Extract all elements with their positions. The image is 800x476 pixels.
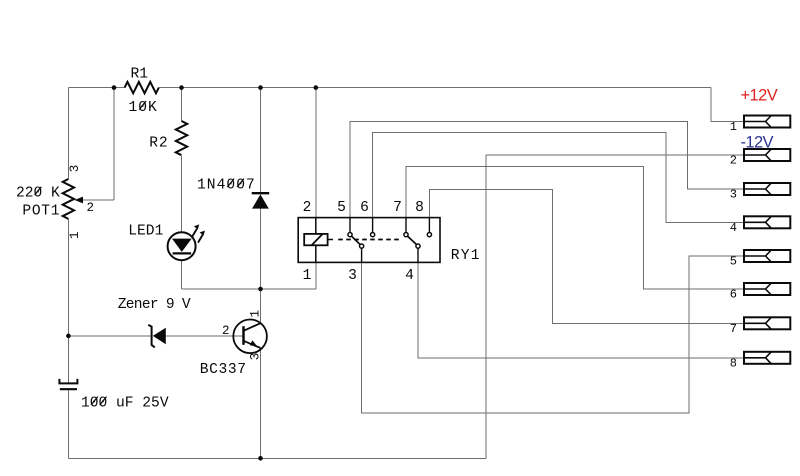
wire relay pin6 to connector 4: [373, 132, 744, 222]
relay pin2 stub: [315, 218, 317, 234]
relay RY1 box: [298, 218, 440, 263]
svg-text:7: 7: [730, 322, 737, 336]
relay contact 8: [427, 233, 431, 237]
resistor R2: [176, 121, 187, 155]
wire R2 to LED1: [181, 156, 183, 232]
diode 1N4007 cathode bar: [252, 192, 270, 194]
wire relay pin5 to connector 3: [350, 122, 744, 218]
svg-text:3: 3: [248, 353, 262, 361]
relay contact 4: [416, 244, 420, 248]
LED1 circle: [168, 232, 196, 260]
relay pin1 stub: [315, 245, 317, 262]
svg-text:8: 8: [415, 200, 424, 216]
junction 1N4007 anode / LED row: [258, 287, 263, 292]
wire 1N4007 top drop: [260, 88, 262, 194]
relay contact 3: [360, 244, 364, 248]
svg-text:POT1: POT1: [22, 204, 60, 220]
transistor Q1 BC337 circle: [233, 320, 267, 354]
connector 4: [744, 216, 790, 228]
relay RY1 coil: [304, 234, 327, 245]
potentiometer POT1 body: [63, 179, 74, 219]
wire relay pin2 drop from top bus: [315, 88, 317, 218]
svg-text:4: 4: [405, 268, 414, 284]
transistor Q1 base bar: [242, 326, 245, 345]
junction top bus / 1N4007: [258, 85, 263, 90]
relay pin8 stub: [428, 218, 430, 233]
wire left rail to capacitor: [67, 336, 69, 383]
LED1 triangle: [172, 239, 192, 252]
svg-text:1: 1: [730, 120, 737, 134]
svg-text:Zener 9 V: Zener 9 V: [118, 297, 191, 313]
wire emitter to bottom rail: [260, 348, 262, 458]
junction zener node: [66, 334, 71, 339]
transistor Q1 emitter arrow: [250, 340, 257, 346]
LED1 cathode bar: [173, 252, 192, 254]
relay pin3 stub: [361, 248, 363, 262]
relay RY1 coil diagonal: [312, 234, 323, 245]
svg-text:1: 1: [303, 268, 312, 284]
svg-text:R2: R2: [149, 135, 168, 151]
relay pin7 stub: [405, 218, 407, 233]
relay contact 5: [348, 233, 352, 237]
wire relay pin4 to connector 8: [418, 262, 744, 357]
LED1 emission arrow b: [198, 235, 203, 243]
wire top bus left of R1: [68, 87, 124, 89]
resistor R1: [125, 82, 159, 93]
connector 6: [744, 283, 790, 295]
connector 8: [744, 352, 790, 364]
wire zener node to zener bar: [68, 335, 150, 337]
connector 3: [744, 183, 790, 195]
wire left rail upper (top bus to POT1): [67, 88, 69, 179]
zener diode triangle: [153, 328, 166, 345]
wire relay pin7 to connector 6: [406, 166, 744, 289]
wire relay pin1 to LED row: [315, 262, 317, 289]
relay blade A: [352, 236, 361, 244]
svg-text:6: 6: [360, 200, 369, 216]
capacitor C1 bottom plate: [60, 388, 77, 390]
svg-text:3: 3: [348, 268, 357, 284]
wire LED1 to node row: [181, 261, 183, 289]
wire POT1 wiper riser: [113, 88, 115, 200]
capacitor C1 top plate: [59, 379, 77, 384]
svg-text:1: 1: [68, 231, 82, 239]
svg-text:1: 1: [248, 310, 262, 318]
wire zener to transistor base: [166, 335, 244, 337]
wire bottom rail: [68, 457, 486, 459]
wire left rail middle (POT1 to zener node): [67, 219, 69, 336]
transistor Q1 collector line: [244, 323, 261, 331]
svg-text:LED1: LED1: [128, 224, 163, 240]
svg-text:R1: R1: [131, 66, 149, 82]
svg-text:3: 3: [68, 165, 82, 173]
svg-text:4: 4: [730, 221, 737, 235]
relay pin6 stub: [372, 218, 374, 233]
wire top bus to connector 1: [711, 88, 744, 122]
svg-text:100 uF 25V: 100 uF 25V: [81, 395, 169, 411]
relay RY1 coil stub: [328, 239, 333, 241]
svg-text:5: 5: [337, 200, 346, 216]
svg-text:8: 8: [730, 356, 737, 370]
junction emitter / bottom rail: [258, 456, 263, 461]
svg-text:RY1: RY1: [451, 248, 481, 264]
svg-text:BC337: BC337: [200, 362, 247, 378]
wire relay pin3 to connector 5: [362, 256, 744, 413]
junction top bus / wiper riser: [112, 85, 117, 90]
connector 1: [744, 116, 790, 128]
relay contact 6: [371, 233, 375, 237]
relay blade B: [408, 236, 417, 244]
svg-text:3: 3: [730, 188, 737, 202]
wire capacitor to bottom rail: [67, 389, 69, 458]
potentiometer POT1 wiper arrow: [75, 197, 84, 204]
junction top bus / relay pin2: [314, 85, 319, 90]
svg-text:2: 2: [730, 154, 737, 168]
svg-text:5: 5: [730, 255, 737, 269]
zener diode bar: [148, 325, 155, 348]
wire top bus right of R1: [159, 87, 711, 89]
svg-text:2: 2: [87, 201, 95, 215]
connector 5: [744, 250, 790, 262]
svg-text:220 K: 220 K: [16, 186, 60, 202]
wire relay pin8 to connector 7: [429, 190, 744, 324]
svg-text:1N4007: 1N4007: [197, 178, 256, 194]
wire POT1 wiper horizontal: [82, 199, 115, 201]
connector 7: [744, 317, 790, 329]
svg-text:-12V: -12V: [741, 134, 774, 152]
transistor Q1 emitter line: [244, 341, 261, 348]
wire 1N4007 anode to collector: [260, 209, 262, 324]
LED1 emission arrow a: [192, 229, 197, 237]
relay RY1 dashed link: [338, 239, 401, 241]
svg-text:7: 7: [393, 200, 402, 216]
relay pin5 stub: [349, 218, 351, 233]
svg-text:2: 2: [222, 324, 230, 338]
connector 2: [744, 149, 790, 161]
relay pin4 stub: [417, 248, 419, 262]
diode 1N4007 triangle: [252, 194, 269, 208]
junction top bus / R2: [179, 85, 184, 90]
relay contact 7: [404, 233, 408, 237]
wire R2 top drop: [181, 88, 183, 121]
svg-text:2: 2: [303, 200, 312, 216]
svg-text:+12V: +12V: [741, 87, 778, 105]
wire bottom rail to connector 2: [486, 155, 744, 458]
svg-text:6: 6: [730, 288, 737, 302]
wire LED row horizontal to relay pin1: [182, 288, 316, 290]
svg-text:10K: 10K: [129, 100, 158, 116]
